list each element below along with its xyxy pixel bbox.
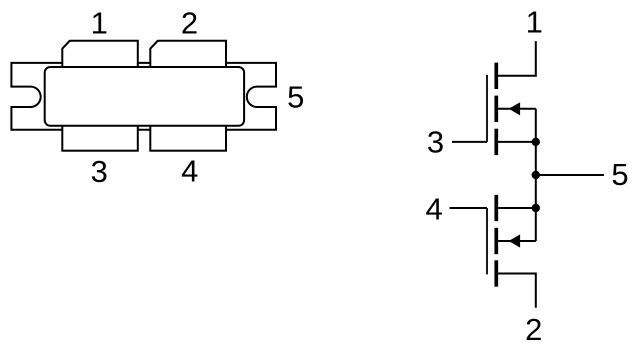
svg-text:1: 1 (526, 5, 543, 40)
wire Q2 body (498, 240, 536, 242)
flange / mounting tab (pin 5) with screw notches (11, 63, 276, 130)
lead 2 (top-right lead, chamfered corner) (150, 41, 226, 75)
transistor Q1 gate electrode (486, 75, 488, 142)
lead 4 (bottom-right lead) (150, 118, 226, 151)
svg-text:4: 4 (425, 191, 442, 226)
Q2 body arrow (509, 234, 520, 247)
svg-text:1: 1 (91, 6, 108, 41)
wire Q2 drain (498, 207, 536, 209)
Q1 body arrow (509, 102, 520, 115)
wire Q1 source (498, 141, 536, 143)
svg-text:3: 3 (91, 154, 108, 189)
svg-text:2: 2 (181, 6, 198, 41)
wire Q1 body to common rail (498, 108, 536, 110)
transistor Q2 gate electrode (486, 208, 488, 274)
svg-text:5: 5 (287, 80, 304, 115)
svg-text:3: 3 (427, 124, 444, 159)
common vertical rail (Q1 body to Q2 body) (535, 109, 537, 241)
wire Q1 drain to pin 1 (498, 41, 536, 76)
svg-text:4: 4 (181, 153, 198, 188)
wire pin 3 to Q1 gate (452, 141, 487, 143)
lead 1 (top-left lead, chamfered corner) (62, 41, 138, 75)
junction dot node 5 (532, 171, 540, 179)
svg-text:2: 2 (525, 312, 542, 343)
transistor Q2 channel bars (drain/body/source) (494, 195, 498, 287)
lead 3 (bottom-left lead) (62, 118, 138, 151)
svg-text:5: 5 (611, 157, 628, 192)
wire Q2 source to pin 2 (498, 274, 536, 308)
package body (ceramic cap) (45, 67, 244, 126)
wire pin 4 to Q2 gate (450, 207, 488, 209)
junction dot Q1 source (532, 138, 540, 146)
wire node 5 tap (536, 174, 604, 176)
junction dot Q2 drain (532, 204, 540, 212)
transistor Q1 channel bars (drain/body/source) (494, 63, 498, 156)
